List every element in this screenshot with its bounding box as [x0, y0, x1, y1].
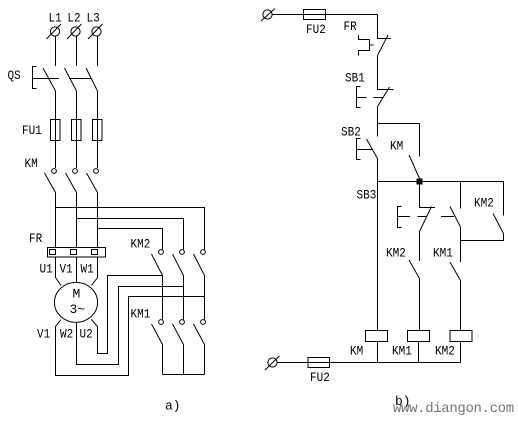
svg-text:KM1: KM1 — [433, 246, 453, 261]
node V1 bottom label — [37, 327, 50, 342]
svg-text:3~: 3~ — [70, 302, 86, 317]
terminal L3 — [88, 24, 103, 39]
contactor KM2 aux label — [474, 196, 494, 211]
svg-text:M: M — [73, 287, 81, 302]
svg-text:FU1: FU1 — [22, 123, 42, 138]
svg-text:FU2: FU2 — [306, 22, 326, 37]
motor M1 letter — [73, 287, 81, 302]
node W1 label — [81, 262, 94, 277]
svg-text:L3: L3 — [87, 11, 100, 26]
fuse FU1 pole 1 — [51, 120, 61, 141]
coil KM2 label — [435, 344, 455, 359]
node U2 label — [80, 327, 93, 342]
junction node dot — [417, 179, 423, 185]
wire motor U2 loop to line A riser — [92, 276, 163, 354]
fuse FU2 top — [304, 10, 326, 20]
coil KM1 — [408, 331, 430, 363]
wire FR to motor U1 — [56, 257, 62, 286]
contactor KM main contact 1 — [45, 141, 57, 248]
svg-text:KM2: KM2 — [474, 196, 494, 211]
coil KM1 label — [392, 344, 412, 359]
svg-text:FU2: FU2 — [310, 370, 330, 385]
contactor KM1 main contacts label — [131, 307, 151, 322]
contactor KM1 interlock label — [433, 246, 453, 261]
switch QS label — [8, 68, 21, 83]
thermal relay FR heater box — [48, 248, 106, 258]
svg-text:FR: FR — [344, 19, 357, 34]
svg-text:SB2: SB2 — [341, 125, 361, 140]
svg-text:KM2: KM2 — [131, 237, 151, 252]
terminal L1 — [47, 24, 62, 39]
svg-text:KM2: KM2 — [386, 246, 406, 261]
pushbutton SB3 NC contact — [420, 182, 436, 262]
contactor KM2 main contact 1 — [152, 250, 164, 320]
svg-text:SB3: SB3 — [357, 188, 377, 203]
svg-text:SB1: SB1 — [345, 71, 365, 86]
svg-text:V1: V1 — [37, 327, 50, 342]
contactor KM self-hold NO contact — [409, 124, 420, 179]
svg-text:W1: W1 — [81, 262, 94, 277]
contactor KM2 main contact 2 — [173, 250, 185, 320]
svg-text:KM: KM — [350, 344, 363, 359]
node L2 label — [67, 11, 80, 26]
contactor KM1 main contact 1 — [152, 320, 164, 375]
svg-text:KM2: KM2 — [435, 344, 455, 359]
switch QS pole 2 blade — [65, 68, 77, 120]
pushbutton SB1 NC stop — [357, 56, 394, 124]
contactor KM1 main contact 3 — [194, 320, 206, 375]
contactor KM aux label — [390, 139, 403, 154]
svg-text:U1: U1 — [40, 262, 53, 277]
contactor KM1 main contact 2 — [173, 320, 185, 375]
fuse FU2 bottom label — [310, 370, 330, 385]
terminal L2 — [67, 24, 82, 39]
node U1 label — [40, 262, 53, 277]
contactor KM2 main contacts label — [131, 237, 151, 252]
switch QS pole 1 blade — [43, 68, 56, 120]
motor M1 phases — [70, 302, 86, 317]
wire tap phase1 to KM2 contact 3 — [56, 208, 205, 250]
svg-text:KM1: KM1 — [131, 307, 151, 322]
svg-text:L2: L2 — [67, 11, 80, 26]
wire FR to motor V1 — [76, 257, 78, 283]
label a) — [165, 399, 181, 414]
svg-text:QS: QS — [8, 68, 21, 83]
wire rung bus — [378, 181, 504, 183]
wire KM1 star point bus — [163, 374, 205, 376]
fuse FU2 bottom — [308, 358, 330, 368]
fuse FU2 top label — [306, 22, 326, 37]
contactor KM2 self-hold NO contact — [461, 182, 504, 241]
pushbutton SB2 NO start — [357, 124, 378, 160]
wire tap phase2 to KM2 contact 2 — [77, 219, 184, 250]
wire L2 to QS — [76, 36, 78, 66]
svg-text:KM: KM — [25, 156, 38, 171]
wire top feed — [272, 14, 378, 16]
svg-text:U2: U2 — [80, 327, 93, 342]
wire SB2 to KM coil — [377, 159, 379, 331]
node L3 label — [87, 11, 100, 26]
contactor KM2 interlock contact — [409, 260, 420, 331]
thermal relay FR NC contact — [359, 15, 392, 56]
motor M1 — [54, 282, 97, 322]
terminal control top — [261, 9, 275, 22]
switch QS linkage bracket — [33, 67, 37, 89]
coil KM — [366, 331, 388, 363]
node V1 label — [60, 262, 73, 277]
label b) — [395, 394, 411, 409]
pushbutton SB1 label — [345, 71, 365, 86]
svg-text:V1: V1 — [60, 262, 73, 277]
fuse FU1 pole 3 — [93, 120, 103, 141]
contactor KM1 interlock contact — [450, 241, 461, 331]
svg-text:W2: W2 — [60, 327, 73, 342]
wire FR to motor W1 — [92, 257, 98, 286]
contactor KM main contact 3 — [87, 141, 99, 248]
contactor KM main contacts label — [25, 156, 38, 171]
thermal relay FR contact label — [344, 19, 357, 34]
coil KM label — [350, 344, 363, 359]
node L1 label — [49, 11, 62, 26]
switch QS pole 3 blade — [86, 68, 98, 120]
svg-text:www.diangon.com: www.diangon.com — [393, 401, 514, 417]
svg-text:KM1: KM1 — [392, 344, 412, 359]
pushbutton SB3 label — [357, 188, 377, 203]
switch QS linkage bar — [33, 78, 92, 80]
watermark — [393, 401, 514, 417]
contactor KM2 main contact 3 — [194, 250, 206, 320]
thermal relay FR label — [29, 231, 42, 246]
wire L3 to QS — [97, 36, 99, 66]
contactor KM main contact 2 — [66, 141, 78, 248]
svg-text:a): a) — [165, 399, 181, 414]
pushbutton SB3 NO contact — [450, 182, 461, 241]
node W2 label — [60, 327, 73, 342]
terminal control bottom — [265, 356, 280, 370]
wire L1 to QS — [55, 36, 57, 66]
pushbutton SB2 label — [341, 125, 361, 140]
fuse FU1 pole 2 — [72, 120, 82, 141]
wire motor V1 loop to line C riser — [56, 297, 205, 376]
pushbutton SB3 actuator — [398, 207, 455, 228]
coil KM2 — [450, 331, 472, 363]
fuse FU1 label — [22, 123, 42, 138]
svg-text:KM: KM — [390, 139, 403, 154]
svg-text:L1: L1 — [49, 11, 62, 26]
wire motor W2 loop to line B riser — [77, 287, 184, 365]
svg-text:FR: FR — [29, 231, 42, 246]
wire tap phase3 to KM2 contact 1 — [98, 229, 163, 250]
wire bottom return bus — [277, 362, 461, 364]
contactor KM2 interlock label — [386, 246, 406, 261]
wire branch to KM self-hold — [378, 123, 420, 125]
